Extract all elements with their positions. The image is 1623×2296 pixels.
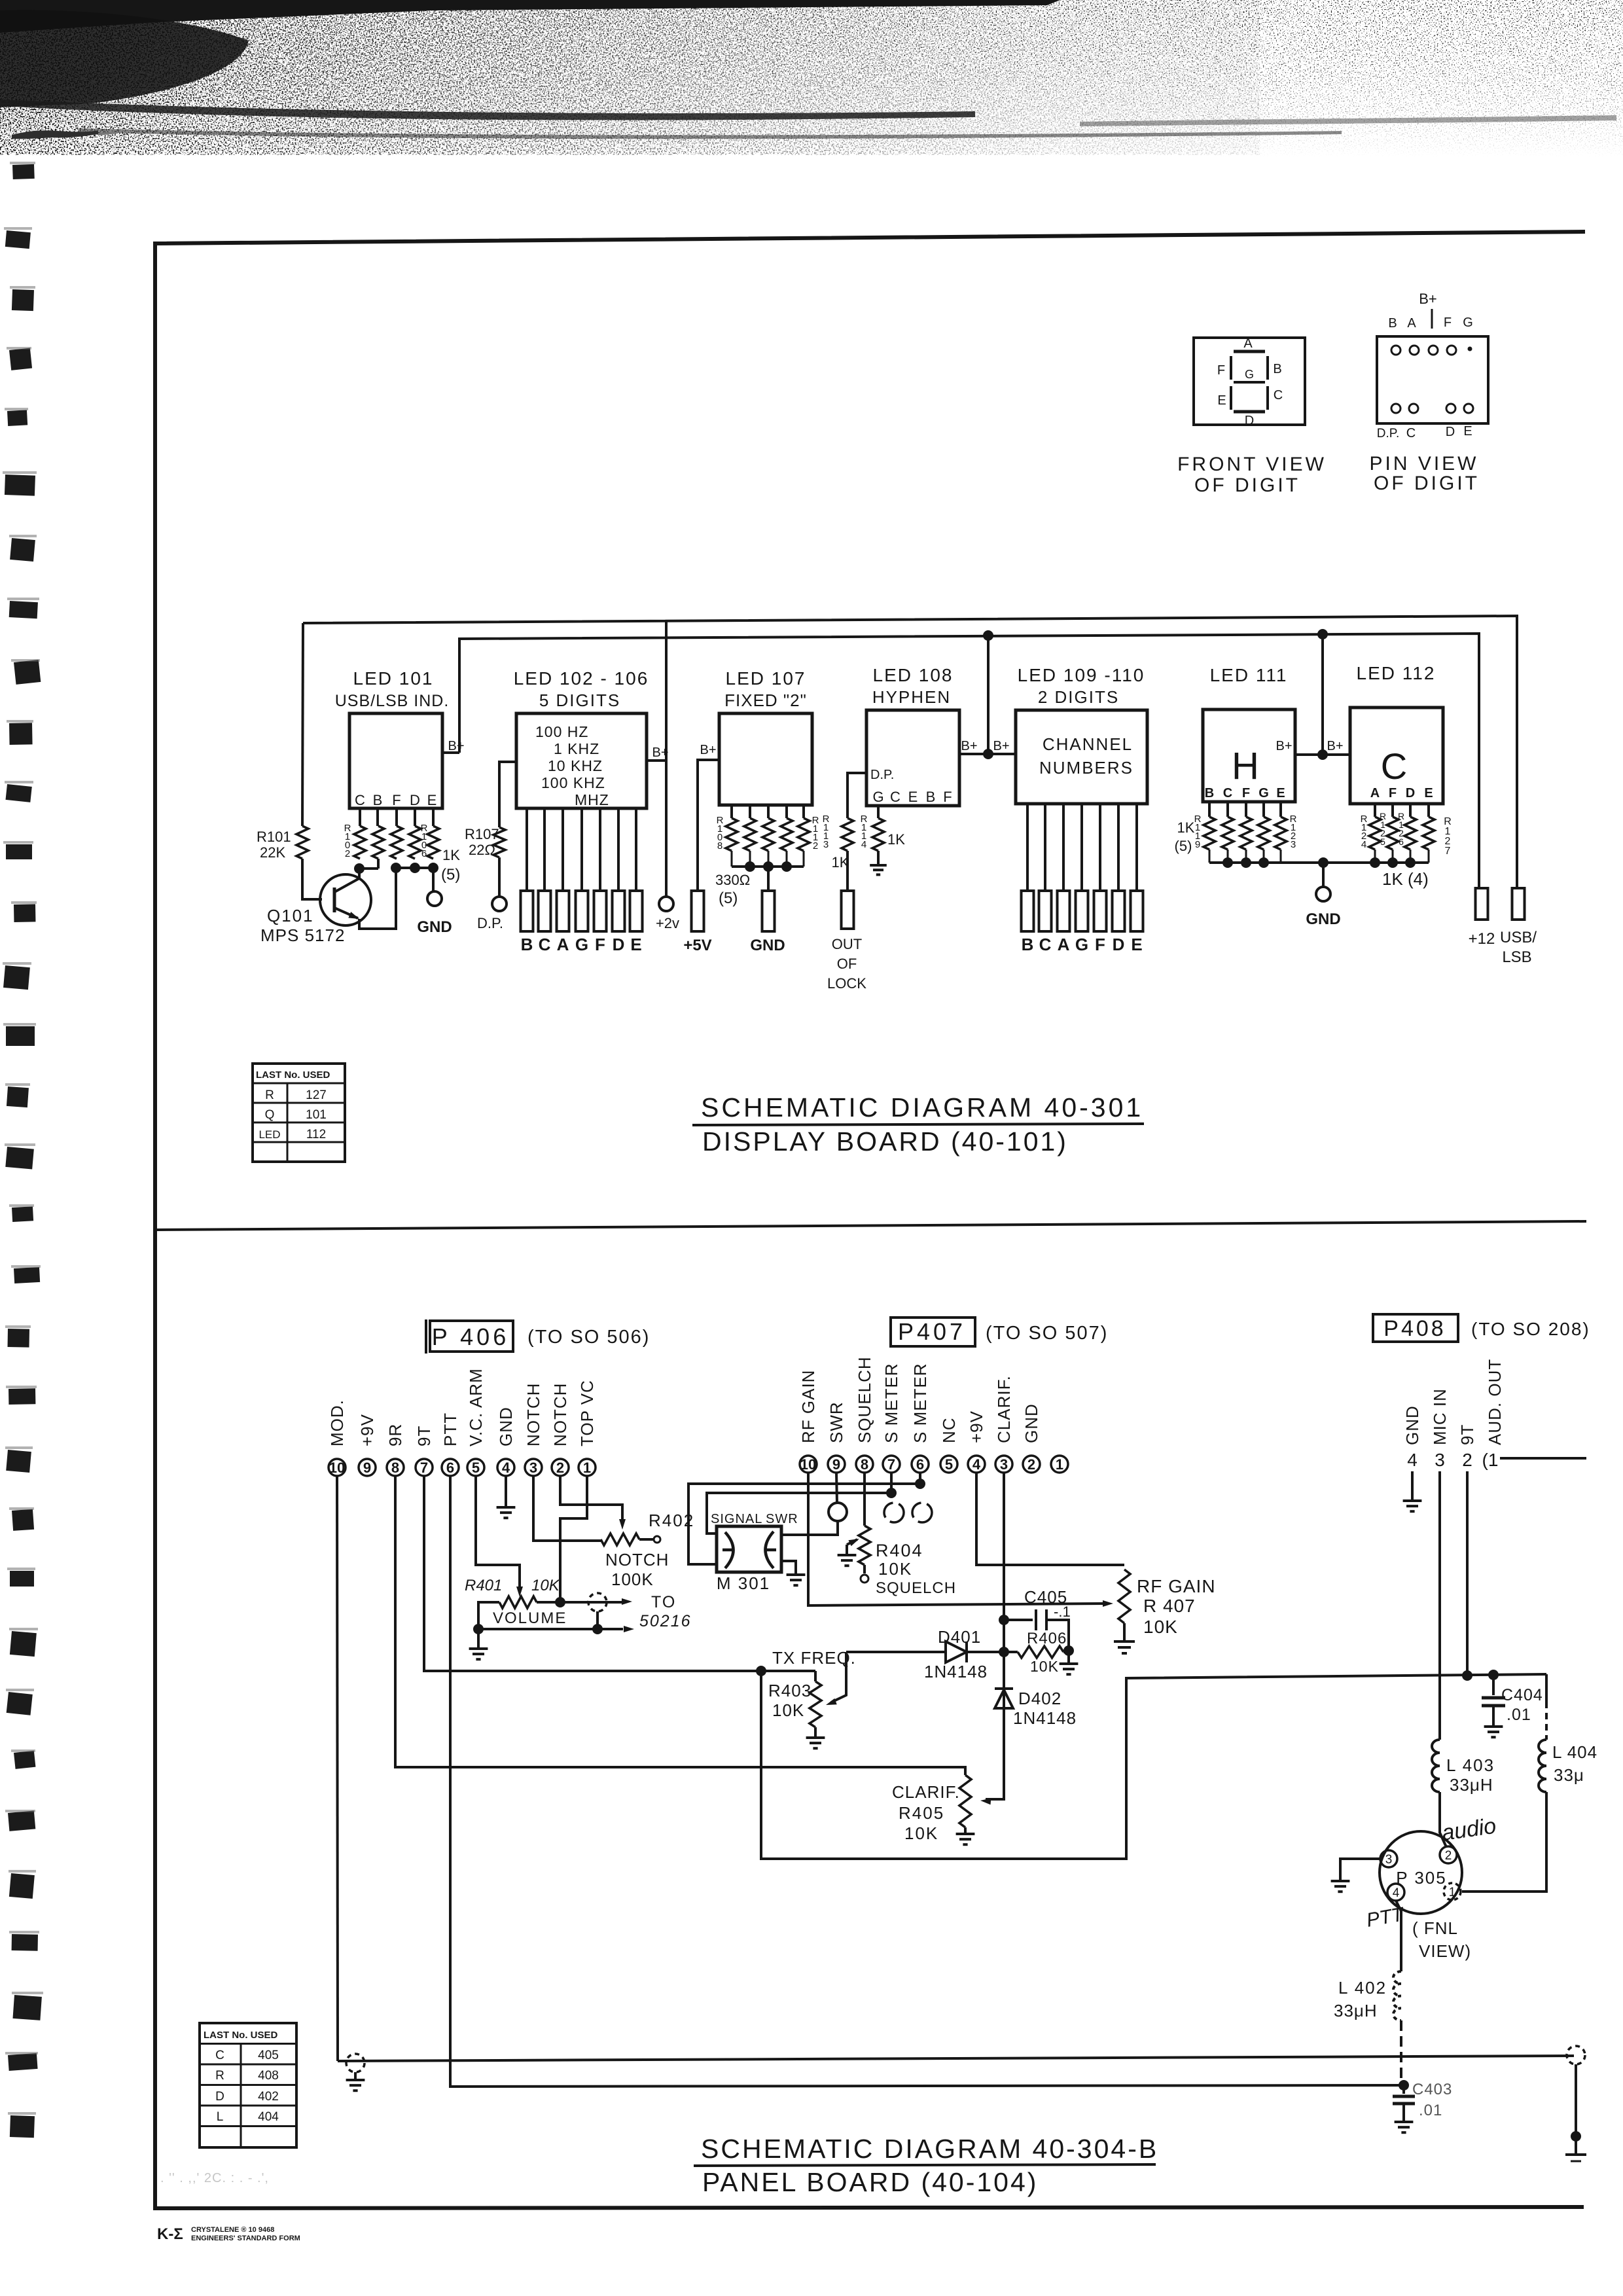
P305 pin 1 <box>1444 1883 1461 1900</box>
svg-text:1N4148: 1N4148 <box>924 1662 988 1681</box>
svg-text:R101: R101 <box>257 829 291 845</box>
wire: lower lead to SO216 <box>596 1611 599 1629</box>
node junctions on emitter bus <box>391 863 401 873</box>
wire: LED102-106 segment pin wires <box>526 808 528 891</box>
svg-text:100 HZ: 100 HZ <box>535 723 588 740</box>
segment A <box>1234 350 1265 353</box>
diode D401 1N4148 <box>846 1651 946 1653</box>
wire: LED109-110 segment pin wires <box>1026 804 1029 891</box>
svg-text:8: 8 <box>861 1456 868 1473</box>
P406 pin 2 <box>552 1459 569 1476</box>
node: bus junction to LED107/LED108 B+ <box>983 630 993 641</box>
svg-text:9: 9 <box>1195 839 1200 850</box>
svg-text:B: B <box>373 792 383 808</box>
resistor R105 <box>409 826 421 859</box>
transistor Q101 <box>320 874 371 925</box>
wire: 9R net from P406 pin 8 to R405 <box>395 1476 965 1775</box>
svg-text:USB/LSB IND.: USB/LSB IND. <box>335 692 450 710</box>
svg-text:R406: R406 <box>1027 1630 1067 1647</box>
svg-text:P 305: P 305 <box>1396 1868 1446 1888</box>
pin view top pin circles <box>1391 346 1400 355</box>
svg-text:VOLUME: VOLUME <box>493 1609 567 1627</box>
svg-text:A: A <box>1243 336 1253 351</box>
resistor R107 <box>499 762 516 827</box>
svg-text:A: A <box>1407 316 1416 331</box>
svg-text:GND: GND <box>1306 910 1340 928</box>
svg-text:R401: R401 <box>465 1577 502 1594</box>
node: collector junction <box>354 863 365 874</box>
wire: 9T from P408 pin 2 <box>1466 1471 1469 1676</box>
svg-text:. '' . ,,' 2C. : . - .',: . '' . ,,' 2C. : . - .', <box>160 2171 269 2185</box>
inductor L403 33uH <box>1432 1740 1440 1792</box>
svg-text:USB/: USB/ <box>1500 929 1537 946</box>
svg-text:PIN VIEW: PIN VIEW <box>1369 453 1478 475</box>
svg-text:D: D <box>1113 935 1125 954</box>
svg-text:R403: R403 <box>768 1681 811 1700</box>
ground below left terminal <box>354 2072 357 2079</box>
svg-text:V.C. ARM: V.C. ARM <box>466 1368 486 1446</box>
svg-text:B+: B+ <box>993 739 1009 753</box>
svg-text:10K: 10K <box>878 1559 912 1579</box>
svg-text:101: 101 <box>306 1108 327 1122</box>
svg-text:C: C <box>215 2049 224 2062</box>
P406 pin 8 <box>387 1459 404 1476</box>
svg-text:MPS 5172: MPS 5172 <box>260 925 345 945</box>
svg-text:10: 10 <box>329 1460 345 1476</box>
svg-text:F: F <box>1242 786 1250 800</box>
svg-text:9T: 9T <box>414 1426 434 1446</box>
wire: R101 to Q101 base <box>302 859 322 899</box>
svg-text:2: 2 <box>345 848 350 859</box>
svg-text:4: 4 <box>1361 839 1366 850</box>
resistor R112 <box>798 818 810 851</box>
svg-text:G: G <box>1258 786 1269 800</box>
wire: LED111 pin stubs <box>1208 802 1211 817</box>
svg-text:LED 102 - 106: LED 102 - 106 <box>514 668 649 689</box>
svg-text:E: E <box>1217 393 1226 408</box>
ground at P406 pin 4 <box>505 1476 507 1506</box>
svg-text:NOTCH: NOTCH <box>524 1383 543 1446</box>
svg-text:1N4148: 1N4148 <box>1013 1708 1077 1728</box>
wire: 9T loop to mic connector (bottom) <box>761 1671 1546 1859</box>
P406 pin 3 <box>525 1459 542 1476</box>
wire: +9V net from P407 pin 4 to R407 <box>976 1473 1124 1565</box>
meter M301 SIGNAL/SWR <box>717 1526 781 1572</box>
ground below R114 <box>877 851 880 865</box>
OUT OF LOCK connector pad <box>842 891 854 929</box>
svg-text:MIC IN: MIC IN <box>1430 1388 1450 1445</box>
svg-text:E: E <box>1424 786 1433 800</box>
svg-text:SWR: SWR <box>766 1512 798 1526</box>
node: junction at right ground <box>1571 2131 1581 2142</box>
ground below R403 <box>814 1727 817 1736</box>
svg-text:PTT: PTT <box>440 1412 460 1446</box>
svg-text:(TO SO 506): (TO SO 506) <box>527 1327 650 1348</box>
node: C404 junction <box>1488 1670 1499 1680</box>
svg-text:LAST No. USED: LAST No. USED <box>256 1069 330 1081</box>
LAST No. USED table (display board) <box>253 1064 345 1162</box>
svg-text:GND: GND <box>1402 1405 1422 1445</box>
svg-text:D401: D401 <box>938 1627 981 1647</box>
svg-text:D.P.: D.P. <box>870 768 894 782</box>
wire: MOD net from P406 pin 10 to bottom bus <box>337 1476 338 2061</box>
svg-text:SCHEMATIC DIAGRAM 40-304-: SCHEMATIC DIAGRAM 40-304-B <box>701 2134 1158 2164</box>
svg-text:402: 402 <box>258 2090 279 2104</box>
lamp terminal circle below P407 pin 9 <box>836 1473 837 1503</box>
wire: LED107 segment pin stubs <box>730 805 733 818</box>
node: B+ junction at LED108 <box>983 749 993 759</box>
svg-text:3: 3 <box>1435 1450 1445 1470</box>
wire: S METER net pin 7 to meter M301 (upper) <box>707 1473 891 1534</box>
svg-text:F: F <box>1095 935 1105 954</box>
resistor R119 <box>1204 817 1215 850</box>
node junctions on LED111 bus <box>1222 857 1233 868</box>
P407 pin 3 <box>995 1456 1012 1473</box>
P407 pin 8 <box>856 1456 873 1473</box>
svg-text:B+: B+ <box>1419 291 1437 307</box>
wire: B+ bus (second) <box>459 634 1479 888</box>
svg-text:D.P.: D.P. <box>1377 427 1400 440</box>
resistor R124 <box>1369 817 1381 850</box>
svg-text:5: 5 <box>945 1456 953 1473</box>
resistor R120 <box>1222 817 1234 850</box>
svg-text:F: F <box>943 789 952 805</box>
wire: emitter node bus R104-R106 <box>396 867 433 869</box>
segment B <box>1266 356 1269 380</box>
svg-text:E: E <box>1131 935 1142 954</box>
svg-text:TOP VC: TOP VC <box>577 1380 597 1446</box>
svg-text:C: C <box>355 792 365 808</box>
svg-text:LED 111: LED 111 <box>1210 665 1288 685</box>
svg-text:Q: Q <box>265 1108 275 1122</box>
svg-text:6: 6 <box>1399 836 1404 847</box>
wire: LED108 D.P. to R113 <box>847 773 866 818</box>
svg-text:1K (4): 1K (4) <box>1382 869 1429 889</box>
svg-text:+2v: +2v <box>656 915 679 931</box>
pin view bottom pin circles <box>1391 404 1400 413</box>
svg-text:FRONT VIEW: FRONT VIEW <box>1177 454 1327 475</box>
front view of digit box <box>1194 338 1305 425</box>
wire: P305 pin 3 to ground <box>1340 1859 1380 1880</box>
svg-text:R 407: R 407 <box>1143 1596 1196 1616</box>
ground at P305 pin 3 <box>1331 1880 1350 1882</box>
svg-text:C: C <box>1223 786 1232 800</box>
svg-text:P408: P408 <box>1383 1316 1446 1341</box>
wire: 9T / TX FREQ net from P406 pin 7 <box>424 1476 761 1671</box>
svg-text:NC: NC <box>939 1417 959 1443</box>
P407 pin 1 <box>1051 1456 1068 1473</box>
node: 9T junction <box>1462 1670 1472 1681</box>
svg-text:9: 9 <box>363 1460 371 1476</box>
svg-text:33μH: 33μH <box>1450 1775 1493 1795</box>
LED101 7-segment display <box>349 713 442 808</box>
+5V connector pad <box>692 891 704 931</box>
resistor R110 <box>762 818 774 851</box>
inductor L404 33uH <box>1545 1674 1548 1702</box>
wire: bus to GND pad <box>767 867 770 891</box>
svg-text:10: 10 <box>800 1456 816 1473</box>
svg-text:L 403: L 403 <box>1446 1755 1495 1775</box>
svg-text:6: 6 <box>421 848 427 859</box>
svg-text:408: 408 <box>258 2069 279 2083</box>
capacitor C403 .01 <box>1402 2085 1405 2094</box>
svg-text:C404: C404 <box>1501 1686 1543 1704</box>
resistor R111 <box>781 818 793 851</box>
svg-text:4: 4 <box>972 1456 981 1473</box>
svg-text:7: 7 <box>1445 846 1451 857</box>
svg-text:6: 6 <box>916 1456 924 1473</box>
svg-text:2: 2 <box>813 840 818 852</box>
wire: B+ bus (top) <box>303 616 1517 888</box>
terminal circle on MOD bus (left) <box>346 2054 365 2072</box>
svg-text:1: 1 <box>1449 1886 1456 1899</box>
LED109-110 2-digit display <box>1016 710 1147 804</box>
svg-text:L 402: L 402 <box>1338 1978 1387 1998</box>
svg-text:C: C <box>1406 426 1416 440</box>
LED102-106 5-digit display <box>516 713 647 808</box>
lamp terminal circle below P407 pin 6 <box>912 1503 932 1522</box>
svg-text:CLARIF.: CLARIF. <box>994 1375 1014 1443</box>
ground below R401 <box>477 1629 480 1647</box>
connector pads B C A G F D E of LED109-110 <box>1022 891 1034 931</box>
svg-text:4: 4 <box>1407 1450 1418 1470</box>
svg-text:CLARIF.: CLARIF. <box>892 1782 960 1802</box>
svg-text:8: 8 <box>717 840 722 852</box>
svg-text:GND: GND <box>750 937 785 954</box>
potentiometer R405 CLARIF 10K <box>959 1775 971 1827</box>
ground below R406 <box>1060 1662 1079 1665</box>
wire: NOTCH net from P406 pin 2 to R402 wiper <box>560 1476 622 1523</box>
wire: R401 output to SO216 <box>537 1601 625 1604</box>
svg-text:2: 2 <box>1445 1849 1452 1863</box>
svg-text:1: 1 <box>1056 1456 1063 1473</box>
wire: R108-R112 common bus <box>732 865 804 868</box>
resistor R406 10K <box>1004 1651 1018 1653</box>
svg-text:D: D <box>215 2090 224 2104</box>
USB/LSB connector pad <box>1512 888 1525 920</box>
resistor R101 <box>302 623 303 826</box>
svg-text:FIXED "2": FIXED "2" <box>724 691 807 710</box>
resistor R127 <box>1423 817 1435 850</box>
svg-text:3: 3 <box>1000 1456 1008 1473</box>
svg-text:B+: B+ <box>961 739 977 753</box>
wire: S METER net pin 6 to meter M301 (lower) <box>688 1473 920 1564</box>
svg-text:( FNL: ( FNL <box>1412 1918 1458 1938</box>
connector P408 label <box>1373 1314 1458 1342</box>
P407 pin 6 <box>912 1456 929 1473</box>
wire: R113 to OUT OF LOCK pad <box>846 851 849 891</box>
+2v terminal circle <box>659 897 673 911</box>
wire: MIC IN from P408 pin 3 to L403 <box>1438 1471 1441 1740</box>
svg-text:R: R <box>265 1088 274 1102</box>
segment G <box>1234 381 1265 384</box>
svg-text:(1: (1 <box>1482 1450 1499 1470</box>
svg-text:2: 2 <box>556 1460 564 1476</box>
P305 pin 2 <box>1440 1846 1457 1863</box>
svg-text:MHZ: MHZ <box>575 791 609 808</box>
wire: to GND terminal <box>432 868 435 891</box>
svg-text:G: G <box>1245 368 1254 381</box>
wire: LED108 pin G to R114 <box>877 806 880 818</box>
resistor R104 <box>391 826 402 859</box>
svg-text:E: E <box>908 789 918 805</box>
wire: collector node bus R102-R103 <box>359 867 378 870</box>
wire: R107 to D.P. terminal <box>498 857 501 897</box>
svg-text:RF GAIN: RF GAIN <box>798 1370 818 1443</box>
svg-text:LED 101: LED 101 <box>353 668 434 689</box>
svg-text:+5V: +5V <box>683 937 711 954</box>
svg-text:PANEL BOARD (40-104): PANEL BOARD (40-104) <box>702 2167 1038 2197</box>
LED112 display (C) <box>1350 708 1443 804</box>
capacitor C404 .01 <box>1492 1675 1495 1695</box>
resistor R103 <box>372 826 384 859</box>
svg-text:2: 2 <box>1027 1456 1035 1473</box>
terminal circle at right end of MOD bus <box>1567 2046 1585 2064</box>
R403 wiper to D401 anode <box>831 1652 846 1702</box>
connector pads B C A G F D E of LED102-106 <box>521 891 533 931</box>
svg-text:LED 112: LED 112 <box>1357 663 1436 683</box>
svg-text:(5): (5) <box>441 866 460 884</box>
ground below C403 <box>1395 2121 1414 2123</box>
svg-text:E: E <box>427 792 437 808</box>
svg-text:OF: OF <box>837 956 857 972</box>
svg-text:TX FREQ.: TX FREQ. <box>772 1648 856 1668</box>
svg-text:-.1: -.1 <box>1054 1604 1071 1620</box>
node: B+ junction at LED111/112 <box>1317 749 1328 760</box>
svg-text:D: D <box>1245 414 1254 428</box>
svg-text:H: H <box>1232 745 1259 787</box>
resistor R121 <box>1240 817 1252 850</box>
svg-text:G: G <box>1075 935 1088 954</box>
svg-text:9: 9 <box>832 1456 840 1473</box>
svg-text:LAST No. USED: LAST No. USED <box>204 2030 278 2041</box>
svg-text:5 DIGITS: 5 DIGITS <box>539 691 620 710</box>
svg-text:2: 2 <box>1462 1450 1472 1470</box>
svg-text:RF GAIN: RF GAIN <box>1137 1576 1216 1596</box>
svg-text:A: A <box>557 935 569 954</box>
node: TOP VC junction on R401 output <box>555 1597 565 1607</box>
svg-text:10K: 10K <box>1030 1658 1059 1675</box>
svg-text:D: D <box>410 792 420 808</box>
svg-text:LED 109 -110: LED 109 -110 <box>1018 665 1145 685</box>
svg-text:S METER: S METER <box>910 1363 930 1443</box>
wire: LED112 resistor tails to bus <box>1374 850 1376 863</box>
svg-text:GND: GND <box>417 918 452 936</box>
svg-text:10K: 10K <box>904 1823 938 1843</box>
P407 pin 4 <box>968 1456 985 1473</box>
svg-text:F: F <box>595 935 605 954</box>
resistor R108 <box>726 818 738 851</box>
svg-text:8: 8 <box>391 1460 399 1476</box>
resistor R122 <box>1258 817 1270 850</box>
wire: R401 left end to ground <box>478 1602 499 1629</box>
svg-text:CHANNEL: CHANNEL <box>1043 734 1133 754</box>
svg-text:DISPLAY BOARD (40-101): DISPLAY BOARD (40-101) <box>702 1126 1068 1157</box>
svg-text:NOTCH: NOTCH <box>605 1550 669 1570</box>
svg-text:Q101: Q101 <box>267 906 314 925</box>
node: R406/C405 junction <box>1063 1645 1074 1656</box>
LED111 display (H) <box>1203 709 1295 802</box>
R404 wiper arrow and ground <box>846 1545 848 1554</box>
svg-text:CRYSTALENE ® 10 9468: CRYSTALENE ® 10 9468 <box>191 2226 274 2234</box>
svg-text:10K: 10K <box>1143 1617 1178 1637</box>
wire: NOTCH net from P406 pin 3 to R402 <box>533 1476 601 1541</box>
potentiometer R407 RF GAIN 10K <box>1118 1570 1130 1623</box>
svg-text:22Ω: 22Ω <box>469 842 495 858</box>
node: bus junction to LED111/LED112 B+ <box>1317 629 1328 639</box>
potentiometer R402 NOTCH 100K <box>601 1534 639 1545</box>
svg-text:3: 3 <box>823 839 829 850</box>
svg-text:SCHEMATIC DIAGRAM 40-301: SCHEMATIC DIAGRAM 40-301 <box>701 1092 1143 1122</box>
node: D401/R406/CLARIF junction <box>999 1647 1009 1657</box>
svg-text:AUD. OUT: AUD. OUT <box>1485 1359 1505 1445</box>
svg-text:50216: 50216 <box>639 1612 692 1630</box>
svg-text:LED: LED <box>259 1128 280 1141</box>
svg-text:1 KHZ: 1 KHZ <box>554 740 599 757</box>
GND terminal circle of LED101 network <box>427 891 442 906</box>
segment C <box>1266 386 1269 410</box>
segment F <box>1230 356 1232 380</box>
svg-text:OF DIGIT: OF DIGIT <box>1374 473 1480 494</box>
svg-text:OUT: OUT <box>832 936 862 952</box>
svg-text:5: 5 <box>472 1460 480 1476</box>
wire: meter + lead from pin 9 circle <box>783 1521 838 1535</box>
segment E <box>1230 386 1232 410</box>
svg-text:405: 405 <box>258 2049 279 2062</box>
svg-text:10K: 10K <box>772 1700 804 1720</box>
svg-text:P 406: P 406 <box>432 1323 509 1350</box>
svg-text:LED 107: LED 107 <box>726 668 806 689</box>
svg-text:B+: B+ <box>448 739 464 753</box>
resistor R113 <box>842 818 853 851</box>
wire: right terminal to ground <box>1575 2064 1577 2136</box>
svg-text:5: 5 <box>1380 836 1385 847</box>
svg-text:NUMBERS: NUMBERS <box>1039 758 1133 778</box>
P407 pin 10 <box>800 1456 817 1473</box>
resistor R106 <box>427 826 439 859</box>
svg-text:+12: +12 <box>1469 930 1495 948</box>
wire: divider between display-board and panel-board sections <box>157 1221 1586 1230</box>
node junctions on R108-R112 bus <box>745 861 755 872</box>
P406 pin 4 <box>497 1459 514 1476</box>
P406 pin 1 <box>579 1459 596 1476</box>
svg-text:LED 108: LED 108 <box>873 665 954 685</box>
wire: L403 to P305 pin 2 <box>1440 1792 1446 1847</box>
P406 pin 10 <box>329 1459 346 1476</box>
D.P. terminal circle <box>492 897 507 911</box>
svg-text:10K: 10K <box>531 1577 560 1594</box>
resistor R109 <box>744 818 756 851</box>
svg-text:7: 7 <box>887 1456 895 1473</box>
svg-text:B: B <box>521 935 533 954</box>
svg-text:D402: D402 <box>1018 1689 1061 1708</box>
svg-text:127: 127 <box>306 1088 327 1102</box>
svg-text:C: C <box>890 789 901 805</box>
svg-text:SWR: SWR <box>827 1401 846 1443</box>
node: TX FREQ junction <box>756 1666 766 1676</box>
svg-text:33μ: 33μ <box>1554 1765 1584 1785</box>
node: CLARIF/C405 junction <box>999 1615 1009 1625</box>
wire: LED112 pin stubs <box>1374 804 1376 817</box>
potentiometer R403 10K <box>761 1670 815 1672</box>
GND connector pad of LED107 <box>762 891 775 931</box>
wire: L402 to bottom bus <box>1400 2020 1402 2085</box>
wire: AUD. OUT from P408 pin 1 <box>1500 1457 1586 1460</box>
svg-text:33μH: 33μH <box>1334 2001 1378 2020</box>
P406 pin 6 <box>442 1459 459 1476</box>
svg-text:B: B <box>1388 316 1397 331</box>
svg-text:2 DIGITS: 2 DIGITS <box>1038 687 1119 707</box>
